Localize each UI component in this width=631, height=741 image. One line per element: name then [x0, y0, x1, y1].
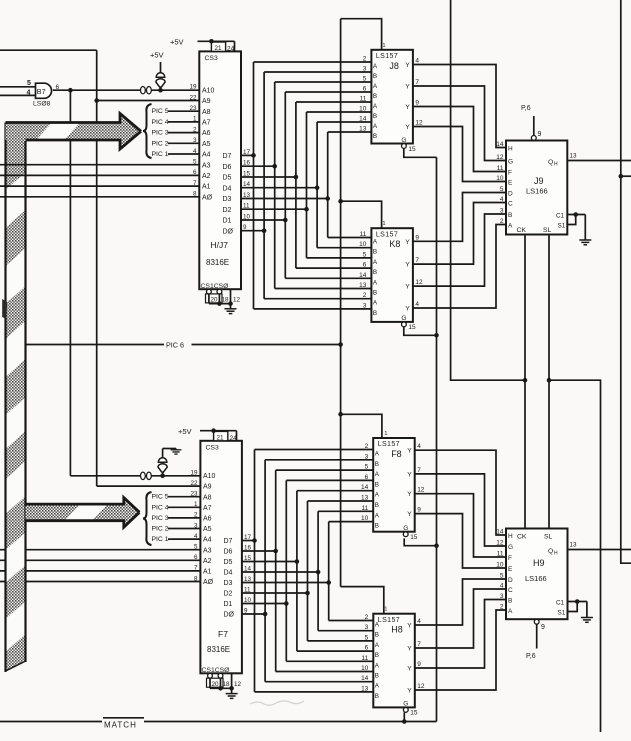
svg-text:10: 10 — [361, 515, 369, 522]
wire F8 Y9 to H9 E — [415, 514, 507, 568]
svg-text:3: 3 — [363, 66, 367, 73]
svg-text:PIC 5: PIC 5 — [152, 494, 169, 501]
svg-text:AØ: AØ — [202, 194, 213, 201]
wire into K8 input row 7 — [254, 308, 372, 310]
wire overdraw across band — [4, 164, 27, 166]
svg-text:B: B — [375, 523, 379, 530]
svg-text:SL: SL — [543, 227, 552, 234]
wire F8 Y7 to H9 G — [415, 474, 507, 546]
svg-text:16: 16 — [244, 545, 252, 552]
hatched arrow into F7 PIC inputs — [26, 498, 140, 528]
wire J9 C1/S1 to ground — [567, 214, 585, 216]
svg-text:2: 2 — [193, 126, 197, 133]
wire channel vertical D7 top half — [253, 62, 255, 309]
svg-text:7: 7 — [415, 257, 419, 264]
svg-text:PIC 1: PIC 1 — [152, 536, 169, 543]
wire into H8 input row 1 — [318, 630, 373, 632]
svg-text:G: G — [401, 137, 406, 144]
svg-text:D2: D2 — [223, 207, 232, 214]
wire CK bus between J9 and H9 — [524, 235, 526, 529]
svg-text:2: 2 — [194, 512, 198, 519]
svg-text:Y: Y — [405, 306, 410, 313]
svg-text:F8: F8 — [391, 449, 402, 459]
wire F7 CS pins to ground — [209, 678, 211, 688]
svg-text:8316E: 8316E — [207, 645, 230, 654]
wire into H8 input row 5 — [276, 671, 374, 673]
svg-text:5: 5 — [363, 76, 367, 83]
svg-text:11: 11 — [244, 587, 251, 594]
wire F7 D1 stub — [242, 603, 286, 605]
wire into J8 input row 5 — [307, 111, 372, 113]
svg-text:PIC 3: PIC 3 — [152, 515, 169, 522]
svg-text:23: 23 — [190, 491, 198, 498]
svg-text:A10: A10 — [202, 87, 215, 94]
svg-text:9: 9 — [415, 234, 419, 241]
H/J7 CS1 CS0 bubbles and pins — [207, 289, 212, 294]
svg-text:9: 9 — [244, 608, 248, 615]
svg-text:11: 11 — [497, 165, 504, 172]
svg-text:PIC 3: PIC 3 — [152, 130, 169, 137]
svg-text:PIC 5: PIC 5 — [152, 108, 169, 115]
wire H/J7 D7 stub — [241, 154, 254, 156]
svg-text:A1: A1 — [202, 184, 211, 191]
wire K8 Y12 to J9 B — [413, 214, 506, 286]
wire A0 of F7 from left — [0, 581, 200, 583]
svg-text:13: 13 — [244, 576, 252, 583]
wire channel vertical D5 top half — [295, 102, 297, 268]
svg-text:8: 8 — [194, 575, 198, 582]
svg-text:Y: Y — [407, 623, 412, 630]
svg-text:12: 12 — [415, 120, 423, 127]
svg-text:15: 15 — [410, 710, 418, 717]
svg-text:A1: A1 — [203, 569, 212, 576]
node PIC6 — [26, 344, 165, 346]
svg-text:A2: A2 — [202, 173, 211, 180]
svg-text:10: 10 — [361, 665, 369, 672]
svg-text:4: 4 — [500, 196, 504, 203]
IC J9 LS166 shift register — [506, 141, 567, 235]
wire channel vertical D6 top half — [274, 82, 276, 289]
svg-text:B: B — [375, 481, 379, 488]
svg-text:LS157: LS157 — [376, 53, 398, 60]
svg-text:12: 12 — [233, 297, 241, 304]
svg-text:G: G — [508, 159, 513, 166]
svg-text:E: E — [508, 566, 513, 573]
svg-text:LS157: LS157 — [378, 617, 400, 624]
svg-text:15: 15 — [408, 146, 416, 153]
wire AND gate input pin 4 — [0, 94, 36, 96]
svg-text:PIC 2: PIC 2 — [152, 140, 169, 147]
svg-text:C1: C1 — [556, 600, 565, 607]
wire H/J7 D2 stub — [241, 208, 307, 210]
wire K8 G pin join — [404, 327, 437, 335]
wire H8 Y4 to H9 D — [415, 579, 507, 625]
svg-text:D4: D4 — [223, 185, 232, 192]
svg-text:H/J7: H/J7 — [211, 240, 229, 250]
svg-text:13: 13 — [361, 495, 369, 502]
F7 CS1 CS0 bubbles and pins — [208, 673, 213, 678]
svg-text:21: 21 — [217, 434, 225, 441]
svg-text:Y: Y — [405, 62, 410, 69]
capacitor bypass F7 — [158, 458, 167, 463]
svg-text:A5: A5 — [203, 526, 212, 533]
wire J9 clear pin 9 — [533, 116, 535, 136]
svg-text:2: 2 — [363, 292, 367, 299]
wire into F8 input row 6 — [318, 510, 373, 512]
svg-text:9: 9 — [417, 661, 421, 668]
svg-text:B: B — [375, 632, 379, 639]
svg-text:H: H — [554, 162, 558, 168]
svg-text:K8: K8 — [389, 239, 400, 249]
svg-text:2: 2 — [363, 56, 367, 63]
svg-text:1: 1 — [382, 221, 385, 227]
wire A2 of H/J7 from left — [0, 174, 199, 176]
wire channel vertical D4 bottom half — [317, 511, 319, 630]
svg-text:13: 13 — [359, 282, 367, 289]
svg-text:3: 3 — [365, 624, 369, 631]
svg-text:4: 4 — [500, 583, 504, 590]
svg-text:5: 5 — [500, 186, 504, 193]
wire A9 net: top feed from left edge — [0, 49, 97, 51]
wire channel vertical D5 bottom half — [296, 491, 298, 651]
svg-text:P,6: P,6 — [526, 653, 536, 660]
wire into H8 input row 6 — [265, 681, 373, 683]
svg-text:19: 19 — [189, 84, 197, 91]
svg-text:2: 2 — [500, 218, 504, 225]
svg-text:G: G — [401, 315, 406, 322]
wire H9 QH output to right edge — [568, 549, 631, 551]
wire F7 D3 stub — [242, 582, 329, 584]
svg-text:3: 3 — [500, 208, 504, 215]
svg-text:B: B — [508, 598, 512, 605]
wire H/J7 D1 stub — [241, 219, 285, 221]
svg-text:7: 7 — [193, 180, 197, 187]
ground cap F7 — [171, 450, 182, 454]
svg-text:14: 14 — [359, 116, 367, 123]
wire K8 Y9 to J9 D — [413, 193, 506, 242]
wire into H8 input row 2 — [308, 640, 374, 642]
wire J9 QH output to right edge — [567, 160, 631, 162]
svg-text:Y: Y — [407, 646, 412, 653]
svg-text:D3: D3 — [223, 196, 232, 203]
wire right edge vertical — [621, 0, 631, 563]
svg-text:B: B — [373, 133, 377, 140]
wire into J8 input row 1 — [264, 71, 371, 73]
svg-text:Y: Y — [407, 491, 412, 498]
svg-text:9: 9 — [415, 100, 419, 107]
svg-text:14: 14 — [496, 141, 504, 148]
wire F8 Y4 to H9 H — [415, 450, 507, 535]
svg-text:LS157: LS157 — [378, 441, 400, 448]
wire channel vertical D1 bottom half — [285, 480, 287, 661]
svg-text:G: G — [403, 701, 408, 708]
svg-text:A2: A2 — [203, 558, 212, 565]
svg-text:A3: A3 — [203, 547, 212, 554]
svg-text:CS1CSØ: CS1CSØ — [202, 667, 231, 674]
svg-text:LS157: LS157 — [376, 231, 398, 238]
svg-text:5: 5 — [363, 251, 367, 258]
wire into J8 input row 4 — [296, 101, 372, 103]
svg-text:B: B — [373, 269, 377, 276]
wire PIC stub F7 — [168, 517, 200, 519]
svg-text:17: 17 — [244, 534, 252, 541]
junction AND output — [68, 88, 73, 93]
svg-text:S1: S1 — [558, 610, 566, 617]
svg-text:4: 4 — [193, 148, 197, 155]
wire into J8 input row 3 — [285, 91, 371, 93]
wire A9 vertical bus — [96, 50, 98, 486]
IC J8 LS157 mux — [371, 50, 413, 144]
wire into H8 input row 7 — [255, 691, 374, 693]
wire H9 C1/S1 to ground — [568, 601, 587, 603]
svg-text:10: 10 — [244, 597, 252, 604]
faint pencil marks — [250, 701, 304, 705]
svg-text:17: 17 — [243, 149, 251, 156]
svg-text:J8: J8 — [389, 61, 399, 71]
wire PIC6 branch to K8 pin1 — [341, 201, 382, 228]
svg-text:B: B — [373, 249, 377, 256]
ground H9 — [581, 618, 593, 623]
svg-text:10: 10 — [359, 106, 367, 113]
wire PIC6 branch to F8 pin1 — [341, 414, 382, 438]
svg-text:15: 15 — [410, 534, 418, 541]
svg-text:D: D — [508, 577, 513, 584]
svg-text:LSØ8: LSØ8 — [33, 101, 51, 108]
wire into K8 input row 5 — [275, 288, 372, 290]
svg-text:CK: CK — [517, 227, 527, 234]
svg-text:B: B — [375, 502, 379, 509]
svg-text:Y: Y — [405, 262, 410, 269]
svg-text:4: 4 — [415, 58, 419, 65]
svg-text:A7: A7 — [202, 120, 211, 127]
svg-text:D3: D3 — [224, 580, 233, 587]
svg-text:12: 12 — [417, 683, 425, 690]
wire H/J7 D3 stub — [241, 198, 328, 200]
svg-text:6: 6 — [193, 169, 197, 176]
IC F7 8316E ROM — [200, 441, 242, 674]
wire SL link to right vertical — [549, 380, 601, 732]
wire J8 Y9 to J9 F — [413, 107, 506, 172]
svg-text:2: 2 — [365, 614, 369, 621]
wire into J8 input row 7 — [328, 131, 372, 133]
wire into H8 input row 0 — [329, 620, 374, 622]
svg-text:11: 11 — [361, 505, 368, 512]
wire channel vertical D4 top half — [316, 122, 318, 248]
wire A1 of F7 from left — [0, 570, 200, 572]
svg-text:6: 6 — [365, 474, 369, 481]
wire F7 D4 stub — [242, 571, 318, 573]
svg-text:Y: Y — [405, 124, 410, 131]
svg-text:SL: SL — [544, 534, 553, 541]
svg-text:12: 12 — [496, 154, 504, 161]
svg-text:3: 3 — [193, 137, 197, 144]
svg-text:14: 14 — [359, 272, 367, 279]
wire into F8 input row 3 — [286, 479, 373, 481]
wire J8 Y12 to J9 E — [413, 127, 506, 182]
svg-text:6: 6 — [365, 645, 369, 652]
wire channel vertical D0 top half — [263, 72, 265, 299]
IC H/J7 8316E ROM — [199, 51, 241, 289]
svg-text:1: 1 — [384, 431, 387, 437]
svg-text:A: A — [508, 223, 513, 230]
wire H/J7 CS pins to ground — [208, 294, 210, 304]
wire K8 Y7 to J9 C — [413, 203, 506, 265]
svg-text:A4: A4 — [202, 152, 211, 159]
svg-text:F: F — [508, 555, 512, 562]
wire into K8 input row 0 — [328, 237, 372, 239]
svg-text:Y: Y — [407, 471, 412, 478]
svg-text:10: 10 — [359, 241, 367, 248]
bubble J9 clear — [531, 136, 536, 141]
svg-text:12: 12 — [417, 487, 425, 494]
wire K8 Y4 to J9 A — [413, 225, 506, 309]
wire J8 G pin down — [404, 149, 437, 158]
svg-text:CS3: CS3 — [206, 445, 219, 452]
svg-text:H: H — [508, 533, 513, 540]
IC F8 LS157 mux — [373, 438, 415, 532]
scan blotch on left edge — [2, 299, 7, 319]
svg-text:3: 3 — [500, 593, 504, 600]
svg-text:D2: D2 — [224, 591, 233, 598]
wire A9 into ROM F7 — [97, 485, 201, 487]
svg-text:2: 2 — [500, 604, 504, 611]
svg-text:D4: D4 — [224, 570, 233, 577]
svg-text:A4: A4 — [203, 537, 212, 544]
svg-text:DØ: DØ — [224, 612, 235, 619]
svg-text:B: B — [373, 113, 377, 120]
IC H8 LS157 mux — [373, 614, 415, 708]
svg-text:4: 4 — [417, 443, 421, 450]
svg-text:B: B — [375, 652, 379, 659]
svg-text:5: 5 — [500, 573, 504, 580]
svg-text:A9: A9 — [203, 484, 212, 491]
wire channel vertical D0 bottom half — [264, 460, 266, 682]
svg-text:24: 24 — [227, 46, 235, 53]
IC H9 LS166 shift register — [506, 529, 568, 620]
wire F7 D2 stub — [242, 592, 308, 594]
wire channel vertical D3 top half — [327, 132, 329, 238]
wire into H8 input row 3 — [297, 650, 373, 652]
wire PIC6 top loop to J8 pin1 — [341, 19, 382, 50]
svg-text:13: 13 — [570, 153, 578, 160]
svg-text:3: 3 — [363, 302, 367, 309]
svg-text:7: 7 — [415, 79, 419, 86]
H/J7 power pin box 21/24 — [211, 42, 225, 51]
wire F8 Y12 to H9 F — [415, 494, 507, 557]
svg-text:20: 20 — [211, 297, 219, 304]
wire PIC stub F7 — [168, 496, 200, 498]
svg-text:Q: Q — [548, 159, 553, 166]
svg-text:Q: Q — [548, 548, 553, 555]
wire into K8 input row 4 — [285, 277, 371, 279]
wire A10 into ROM F7 — [70, 475, 200, 477]
svg-text:13: 13 — [570, 542, 578, 549]
wire PIC6 main vertical — [340, 19, 342, 587]
svg-text:E: E — [508, 180, 513, 187]
wire PIC stub H/J7 — [168, 142, 199, 144]
ferrite bead A10 F7 — [141, 472, 152, 479]
wire into F8 input row 1 — [265, 459, 373, 461]
svg-text:6: 6 — [56, 84, 60, 91]
svg-text:G: G — [403, 525, 408, 532]
wire AND gate input pin 5 — [0, 86, 36, 88]
svg-text:C: C — [508, 587, 513, 594]
svg-text:C: C — [508, 201, 513, 208]
wire channel vertical D7 bottom half — [254, 450, 256, 692]
svg-text:5: 5 — [194, 544, 198, 551]
wire PIC stub H/J7 — [168, 153, 199, 155]
svg-text:D1: D1 — [223, 218, 232, 225]
wire stub to right edge — [621, 175, 631, 177]
svg-text:Y: Y — [407, 511, 412, 518]
svg-text:5: 5 — [27, 80, 31, 87]
wire H9 clear pin 9 — [536, 624, 538, 648]
svg-text:21: 21 — [215, 45, 223, 52]
svg-text:B: B — [373, 290, 377, 297]
svg-text:A: A — [508, 608, 513, 615]
svg-text:Y: Y — [405, 84, 410, 91]
svg-text:LS166: LS166 — [525, 574, 547, 583]
svg-text:3: 3 — [194, 522, 198, 529]
wire H8 Y12 to H9 A — [415, 610, 507, 690]
svg-text:14: 14 — [361, 675, 369, 682]
svg-text:A7: A7 — [203, 505, 212, 512]
svg-text:20: 20 — [212, 681, 220, 688]
svg-text:11: 11 — [360, 231, 367, 238]
svg-text:D7: D7 — [223, 153, 232, 160]
wire SL bus between J9 and H9 — [548, 235, 550, 529]
svg-text:6: 6 — [363, 262, 367, 269]
svg-text:D5: D5 — [224, 559, 233, 566]
wire channel vertical D3 bottom half — [328, 522, 330, 621]
svg-text:14: 14 — [361, 484, 369, 491]
svg-text:G: G — [508, 544, 513, 551]
svg-text:PIC 6: PIC 6 — [166, 340, 184, 349]
wire F7 D0 stub — [242, 613, 265, 615]
hatched arrow into H/J7 PIC inputs — [6, 114, 142, 150]
svg-text:23: 23 — [189, 105, 197, 112]
wire +5V to H/J7 pin 21/24 — [198, 40, 235, 42]
svg-text:+5V: +5V — [150, 51, 164, 60]
svg-text:B7: B7 — [37, 87, 46, 96]
wire PIC stub H/J7 — [168, 110, 199, 112]
svg-text:Y: Y — [407, 448, 412, 455]
svg-text:AØ: AØ — [203, 579, 214, 586]
wire PIC stub H/J7 — [168, 132, 199, 134]
svg-text:CS1CSØ: CS1CSØ — [201, 283, 230, 290]
svg-text:Y: Y — [405, 239, 410, 246]
wire AND output vertical to F7 A10 — [69, 90, 71, 476]
svg-text:D7: D7 — [224, 538, 233, 545]
svg-text:4: 4 — [417, 618, 421, 625]
svg-text:H9: H9 — [533, 558, 545, 568]
svg-text:18: 18 — [223, 681, 231, 688]
wire into J8 input row 6 — [317, 121, 371, 123]
wire into F8 input row 2 — [276, 469, 374, 471]
wire F7 D5 stub — [242, 561, 297, 563]
svg-text:5: 5 — [365, 464, 369, 471]
svg-text:12: 12 — [234, 681, 242, 688]
svg-text:PIC 2: PIC 2 — [152, 526, 169, 533]
svg-text:13: 13 — [361, 685, 369, 692]
svg-text:5: 5 — [193, 159, 197, 166]
svg-text:B: B — [373, 310, 377, 317]
svg-text:15: 15 — [244, 555, 252, 562]
wire PIC stub H/J7 — [168, 121, 199, 123]
svg-text:14: 14 — [244, 566, 252, 573]
wire H/J7 D5 stub — [241, 176, 296, 178]
svg-text:9: 9 — [417, 507, 421, 514]
